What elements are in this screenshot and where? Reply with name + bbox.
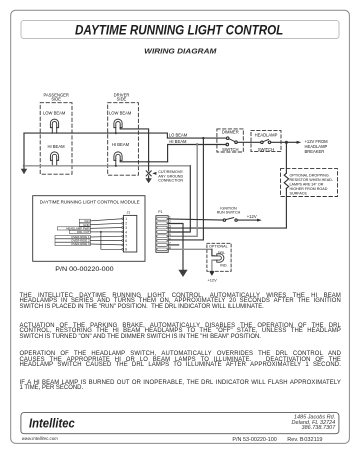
- wire P1-5 riser to HI BEAM net (gray): [168, 145, 197, 237]
- label HEADLAMP SWITCH: [255, 132, 278, 152]
- module pin label HEADLAMP PWR: [57, 227, 90, 231]
- module pin label GND: [79, 223, 90, 227]
- wire HEADLAMP PWR to J1-3: [90, 227, 121, 230]
- switch S3 ignition run: [223, 218, 237, 222]
- wire DRL OUT branch to J1-8: [101, 232, 122, 249]
- paragraph 3: [20, 352, 342, 369]
- ground chassis symbol removed (below cut): [148, 176, 150, 179]
- module pin label OVER-RIDE 1: [55, 235, 90, 239]
- node cut ground junction: [147, 161, 149, 163]
- lamp DS5 DRL indicator: [212, 254, 224, 262]
- node DRL OUT branch junction: [100, 231, 102, 233]
- lamp DS1 passenger low beam: [50, 119, 58, 133]
- wire P1-6 riser to LO BEAM net: [168, 138, 203, 240]
- ground chassis symbol main: [178, 270, 187, 277]
- wire +12V down to resistor: [285, 142, 287, 173]
- driver side enclosure box: [108, 103, 139, 176]
- wire indicator to +12V (gray): [211, 260, 213, 271]
- connector J1: [123, 215, 136, 252]
- net arrow +12V from headlamp breaker: [286, 141, 296, 143]
- P1 pin slots: [157, 218, 167, 251]
- note text OPTIONAL DROPPING RESISTOR: [290, 173, 334, 195]
- lamp DS2 passenger hi beam: [50, 152, 58, 166]
- svg-text:P/N 53-00220-100: P/N 53-00220-100: [232, 437, 276, 443]
- label DIMMER SWITCH: [222, 130, 239, 152]
- wire P1-8 to DRL indicator (gray): [168, 248, 212, 250]
- wire low-beam bus left vertical to ground: [23, 133, 25, 166]
- callout arrow pointing at cut: [152, 172, 156, 175]
- wire P1-2 to chassis ground: [168, 224, 183, 271]
- title box: [21, 21, 339, 39]
- optional DRL indicator enclosure: [207, 243, 231, 271]
- footer box: [21, 413, 339, 434]
- label OPTIONAL DRL IND.: [209, 244, 228, 267]
- DRL control module box: [33, 196, 145, 262]
- J1 pin numbers 1-8: [125, 217, 127, 252]
- label IGNITION RUN SWITCH: [217, 206, 241, 214]
- wire DRL OUT to J1-4: [90, 231, 121, 233]
- module pin label DRL OUT: [69, 230, 90, 234]
- wire GND to J1-2: [90, 223, 121, 225]
- connector P1: [156, 216, 168, 253]
- ground chassis symbol left: [23, 166, 25, 169]
- wire LO BEAM net: low lamps bus to dimmer switch: [24, 133, 226, 138]
- wire hi-beam bus drop to P1-4 drl out: [168, 166, 190, 232]
- wire P1-7 stub over-ride 3: [168, 244, 179, 246]
- module pin label IGN: [79, 219, 90, 223]
- wire IGN to J1-1: [90, 219, 121, 221]
- cut symbol X on removed ground: [146, 171, 151, 176]
- headlamp switch enclosure: [251, 131, 281, 152]
- dimmer switch enclosure: [217, 129, 243, 152]
- paragraph 4: [20, 381, 342, 392]
- wire dimmer common to headlamp switch: [237, 141, 260, 143]
- node driver low beam tap: [115, 132, 117, 134]
- module internal wires to J1: [90, 219, 121, 250]
- wire resistor to headlamp pwr line: [285, 188, 287, 228]
- node +12V breaker junction: [285, 141, 288, 144]
- switch S2 headlamp SPST: [261, 140, 271, 144]
- node LO BEAM to module override 1: [202, 137, 204, 139]
- J1 pin terminal circles: [122, 218, 124, 250]
- wire OVER-RIDE 2 to J1-6: [90, 240, 121, 242]
- node HI BEAM to module DRL out: [196, 143, 198, 145]
- wire driver hi beam return leg: [120, 160, 167, 161]
- net arrow +12V ignition: [237, 219, 257, 221]
- lamp DS4 driver hi beam: [114, 152, 122, 166]
- wire OVER-RIDE 1 to J1-5: [90, 235, 121, 238]
- svg-text:www.Intellitec.com: www.Intellitec.com: [22, 436, 58, 441]
- optional dropping resistor note box: [281, 169, 338, 197]
- label +12V FROM HEADLAMP BREAKER: [305, 139, 329, 154]
- module pin label OVER-RIDE 3: [55, 242, 90, 246]
- net arrow +12V indicator: [209, 271, 214, 276]
- node junction at left ground: [23, 165, 25, 167]
- wire into indicator lamp: [212, 249, 215, 256]
- wire P1-1 to ignition run switch: [168, 219, 223, 220]
- wire headlamp pwr: P1-3 to resistor: [168, 227, 286, 229]
- resistor R1 optional dropping: [284, 173, 288, 188]
- label DRIVER SIDE: [114, 93, 130, 102]
- passenger side enclosure box: [40, 103, 72, 175]
- svg-text:Rev. B: Rev. B: [287, 437, 304, 443]
- P1 pin numbers 1-8: [169, 216, 171, 251]
- svg-text:Intellitec: Intellitec: [29, 416, 75, 431]
- label PASSENGER SIDE: [43, 93, 68, 102]
- switch S1 dimmer SPDT: [226, 137, 237, 146]
- svg-text:386.738.7307: 386.738.7307: [302, 425, 337, 431]
- wire OVER-RIDE 3 to J1-7: [90, 243, 121, 246]
- lamp DS3 driver low beam: [114, 119, 122, 133]
- svg-text:032119: 032119: [304, 437, 322, 443]
- wire HI BEAM net riser to dimmer: [168, 145, 227, 162]
- wire headlamp switch to +12V breaker node: [271, 141, 287, 143]
- wire hi-beam series bus (gray): [24, 165, 190, 167]
- note text CUT/REMOVE ANY GROUND CONNECTION: [158, 170, 183, 182]
- module pin label OVER-RIDE 2: [55, 239, 90, 243]
- paragraph 1: [20, 294, 342, 311]
- node driver hi beam tap: [115, 165, 117, 167]
- wire driver low beam return leg: [120, 128, 148, 171]
- paragraph 2: [20, 324, 342, 341]
